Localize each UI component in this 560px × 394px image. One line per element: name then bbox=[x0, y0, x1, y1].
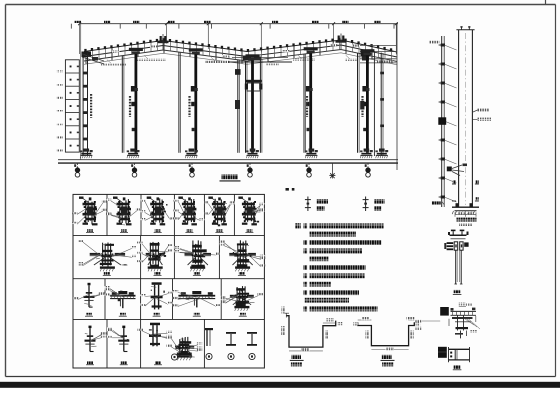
roof slope tiny labels bbox=[101, 55, 393, 65]
section detail 1-1 flange boxes bbox=[454, 242, 463, 250]
axis-top tiny leader labels bbox=[112, 44, 360, 57]
detail r4c4 circled sections bbox=[205, 328, 257, 360]
detail r3c3 bbox=[140, 282, 172, 309]
detail grid table frame bbox=[73, 194, 264, 368]
notes header bullet bbox=[295, 223, 300, 228]
small marks above legend bbox=[286, 188, 295, 191]
level benchmark mark bbox=[329, 163, 335, 178]
note row 8 bbox=[304, 282, 332, 287]
detail r2c2 bbox=[137, 242, 172, 272]
elevation title 6-H bbox=[220, 174, 241, 181]
purlin dots on roof bbox=[84, 38, 392, 52]
detail r4c3 circle mark bbox=[171, 354, 177, 360]
detail r1c4 bbox=[173, 197, 204, 226]
frame column axis 4 bbox=[246, 54, 260, 158]
tall column right labels bbox=[473, 109, 491, 121]
detail r4c2 bbox=[107, 326, 129, 352]
tall column section cut marks 1-1 bbox=[452, 180, 479, 201]
tall column detail - main column bbox=[456, 26, 474, 207]
ground lines bbox=[58, 160, 398, 163]
gutter profile right bbox=[353, 317, 420, 366]
valley gutter line bbox=[228, 56, 292, 63]
I-beam detail bottom-right bbox=[438, 347, 470, 362]
top dimension line bbox=[71, 21, 398, 55]
gutter profile left bbox=[281, 307, 343, 367]
note row 7 bbox=[304, 273, 366, 278]
end wall column A (left) with girt marks bbox=[80, 24, 93, 160]
wall girt ladder (left) bbox=[57, 60, 80, 152]
joint detail left tiny dims bbox=[415, 319, 440, 329]
detail r3c2 bbox=[105, 286, 136, 308]
right eave gutter and gable girts bbox=[360, 45, 397, 63]
section detail 1-1 right blob bbox=[464, 242, 468, 246]
roof band web ticks bbox=[86, 41, 392, 64]
note row 6 bbox=[304, 265, 366, 270]
detail r3c4 bbox=[173, 290, 221, 307]
note row 5 bbox=[310, 257, 329, 262]
section detail 1-1 left bolt stack bbox=[444, 242, 453, 250]
note row 11 bbox=[304, 306, 378, 311]
detail r2c4 bbox=[219, 240, 265, 271]
section detail 1-1 legs bbox=[454, 250, 462, 284]
frame column axis 3 bbox=[179, 48, 203, 158]
note row 1 bbox=[304, 223, 385, 228]
tall column bottom dimension rows bbox=[455, 212, 477, 226]
roof beam band bbox=[84, 40, 397, 65]
tall column black gusset bbox=[438, 117, 446, 125]
frame column axis 2 bbox=[122, 48, 143, 158]
valley double column cluster bbox=[235, 59, 262, 152]
gable columns (right) bbox=[360, 51, 388, 158]
detail r3c5 bbox=[220, 286, 263, 311]
detail r4c3 double bbox=[138, 323, 173, 347]
tall column top-left small label bbox=[429, 41, 440, 44]
detail r3c1 bbox=[73, 283, 104, 307]
detail r2c1 bbox=[78, 240, 136, 272]
section detail 1-1 top bolts bbox=[448, 230, 469, 235]
note row 2 bbox=[310, 232, 357, 237]
weld legend symbol 1 bbox=[305, 197, 328, 212]
note row 3 bbox=[304, 240, 382, 245]
wall column label text (vertical) bbox=[90, 94, 92, 118]
weld legend symbol 2 bbox=[363, 197, 385, 212]
ridge clusters bbox=[158, 34, 347, 50]
detail r2c3 bbox=[174, 240, 220, 271]
grid bubbles below ground bbox=[74, 164, 370, 178]
detail r1c6 bbox=[238, 197, 264, 226]
note row 4 bbox=[304, 248, 363, 253]
left eave gutter bbox=[82, 52, 105, 65]
section detail 1-1 label bbox=[453, 290, 462, 295]
detail r1c3 bbox=[140, 197, 174, 226]
joint detail mid-right bbox=[440, 303, 480, 339]
note row 9 bbox=[304, 290, 360, 295]
frame column axis 5 bbox=[304, 47, 318, 158]
I-beam detail label bbox=[453, 365, 462, 369]
note row 10 bbox=[305, 298, 350, 303]
right extension line bbox=[396, 24, 398, 170]
frame column axis 6 bbox=[358, 49, 375, 158]
detail r1c1 bbox=[72, 197, 107, 226]
tall column base level mark bbox=[432, 201, 445, 205]
detail r1c2 bbox=[106, 197, 141, 226]
tall column rail-to-column arrows bbox=[447, 164, 467, 176]
section detail 1-1 cap plate bbox=[450, 235, 467, 239]
tall column detail - girt rail bbox=[439, 36, 457, 207]
tall column base bbox=[452, 203, 479, 214]
detail r1c5 bbox=[203, 197, 234, 227]
detail r4c1 bbox=[85, 326, 107, 352]
